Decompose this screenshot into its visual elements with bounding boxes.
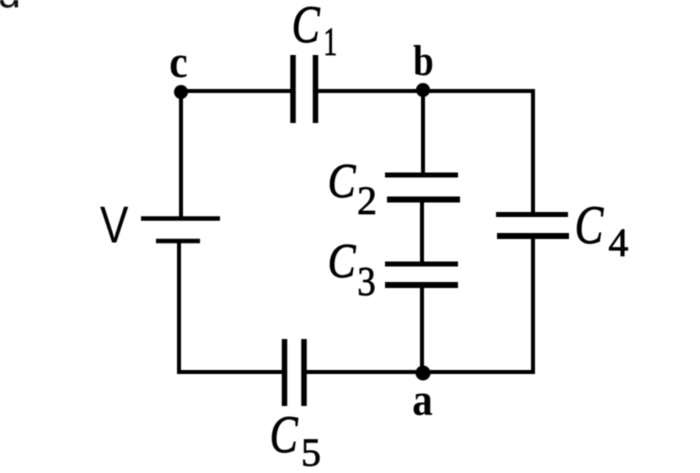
wire: middle vertical C3 bottom plate to node a: [420, 284, 424, 373]
wire: left vertical upper (node c to battery top plate): [179, 92, 183, 219]
svg-text:3: 3: [357, 259, 375, 304]
capacitor C2: [328, 153, 460, 223]
wire: top from node c to C1 left plate: [181, 89, 291, 93]
svg-text:c: c: [169, 37, 187, 87]
svg-text:1: 1: [323, 20, 337, 64]
wire: bottom from C5 right plate through node a to bottom-right corner: [303, 370, 535, 374]
wire: middle vertical between C2 and C3: [420, 199, 424, 265]
capacitor C5: [270, 339, 321, 473]
node b: [416, 83, 430, 97]
svg-text:C: C: [292, 0, 321, 54]
svg-text:V: V: [100, 197, 129, 255]
node c: [174, 85, 188, 99]
svg-text:C: C: [328, 153, 356, 208]
battery V: [100, 197, 220, 255]
svg-text:C: C: [328, 233, 356, 288]
svg-text:C: C: [575, 195, 604, 255]
node a: [416, 366, 431, 381]
capacitor C4: [496, 195, 628, 265]
wire: middle vertical node b to C2 top plate: [421, 91, 425, 176]
capacitor C1: [292, 0, 337, 123]
svg-text:b: b: [413, 36, 434, 84]
svg-text:a: a: [412, 375, 433, 426]
svg-text:2: 2: [357, 178, 377, 223]
wire: bottom from bottom-left corner to C5 left plate: [177, 370, 286, 374]
svg-text:C: C: [270, 405, 299, 464]
wire: top from C1 right plate through node b to top-right corner: [317, 89, 535, 93]
svg-text:4: 4: [608, 220, 628, 265]
wire: right vertical upper (corner to C4 top plate): [531, 89, 535, 215]
wire: right vertical lower (C4 bottom plate to bottom-right corner): [531, 236, 535, 374]
svg-text:d: d: [0, 0, 21, 17]
capacitor C3: [328, 233, 458, 305]
wire: left vertical lower (battery bottom plate to bottom-left corner): [177, 241, 181, 374]
svg-text:5: 5: [301, 430, 321, 473]
